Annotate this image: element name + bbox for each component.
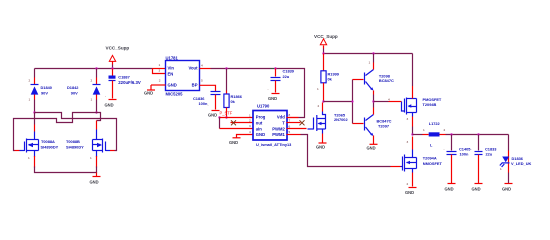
svg-text:V_LED_UK: V_LED_UK [511,161,532,166]
junction Vout rail at C1839 [274,67,276,69]
svg-text:2: 2 [444,128,446,132]
svg-text:1: 1 [159,63,161,67]
svg-text:3: 3 [249,124,251,128]
svg-text:GND: GND [90,180,99,185]
svg-text:GND: GND [316,144,325,149]
svg-text:1: 1 [423,128,425,132]
wire T2094A drain [407,137,413,150]
wire U1790 pin8 Vdd riser [287,113,299,118]
svg-text:BP: BP [192,82,198,87]
svg-text:-: - [471,147,472,151]
transistor T0088A (MOSFET SI4890DY) [20,132,59,158]
svg-text:1: 1 [317,87,319,91]
junction switch node [411,133,413,135]
svg-text:GND: GND [445,186,454,191]
svg-text:2: 2 [159,78,161,82]
capacitor C1887 (polarized 220uF/6.3V) [105,69,141,99]
svg-text:4: 4 [249,130,251,134]
svg-text:22u: 22u [283,74,290,79]
wire T2065 source to ground [322,129,324,143]
svg-text:2: 2 [407,182,409,186]
svg-text:ain: ain [256,126,262,131]
op-amp U1790 ATtiny13 box [253,104,292,147]
svg-text:220uF/6.3V: 220uF/6.3V [118,80,141,85]
svg-text:GND: GND [144,91,153,96]
junction Vout rail at R1866 [225,67,227,69]
svg-text:T2094A: T2094A [423,155,437,160]
svg-text:T2094B: T2094B [423,102,437,107]
ground T2094A [405,188,417,195]
svg-text:4: 4 [201,63,203,67]
svg-text:3: 3 [407,117,409,121]
svg-text:GND: GND [208,113,217,118]
wire jog right diode node down to T0088B drain [97,113,101,130]
junction totem-pole output [372,100,374,102]
svg-text:GND: GND [502,186,511,191]
svg-text:5: 5 [201,78,203,82]
svg-text:U_ismail_ATTiny13: U_ismail_ATTiny13 [256,142,292,147]
svg-text:2: 2 [249,118,251,122]
svg-text:P_STF: P_STF [220,111,233,116]
svg-text:1: 1 [369,61,371,65]
svg-text:2: 2 [318,104,320,108]
node VCC_IN00 (left power label) [106,46,130,51]
svg-text:VCC_Supp: VCC_Supp [314,34,338,39]
svg-text:-: - [444,147,445,151]
svg-text:VCC_Supp: VCC_Supp [106,46,130,51]
svg-text:5: 5 [289,130,291,134]
svg-text:NMOSFET: NMOSFET [423,161,443,166]
svg-text:BC847C: BC847C [379,78,394,83]
transistor T2097 (BC847C, bottom NPN) [365,102,392,145]
junction output rail at C1405 [450,133,452,135]
svg-text:L1722: L1722 [429,121,441,126]
svg-text:1: 1 [29,98,31,102]
svg-text:U1781: U1781 [166,56,179,61]
svg-text:C1887: C1887 [118,75,129,80]
node VCC_IN00 (right power label) [314,34,338,39]
junction rail at T2098 collector [372,52,374,54]
transistor T2094B (PMOSFET) [402,54,442,115]
wire T0088A source to bottom rail [28,156,35,168]
svg-text:90V: 90V [41,90,48,95]
svg-text:-: - [268,88,269,92]
svg-text:3: 3 [159,68,161,72]
ground D1836 [502,184,513,192]
junction P_STF corner [218,116,220,118]
capacitor C1833 22u [471,135,498,184]
svg-text:MIC5205: MIC5205 [166,91,184,96]
wire switch node to L1722 [413,128,429,135]
svg-text:-: - [208,104,209,108]
wire rail into regulator pins 1,3 [153,63,166,74]
svg-text:90V: 90V [71,90,78,95]
svg-text:4: 4 [388,97,390,101]
wire P_STF down to U1790 pin3 [220,118,253,129]
junction output rail at C1833 [477,133,479,135]
ground C1833 [472,184,483,192]
resistor R1866 [224,69,243,118]
wire regulator GND pin 2 [151,78,166,89]
wire U1790 pin7 T no-connect [287,118,301,122]
ground C1836 [208,111,220,118]
svg-text:1: 1 [90,156,92,160]
wire BP pin 5 to C1836 [200,78,216,91]
ground left MOSFET sources [90,173,101,185]
inductor L1722 [429,121,446,147]
svg-text:2N7002: 2N7002 [334,117,348,122]
junction R1866 bottom on pin1 net [225,116,227,118]
svg-text:GND: GND [268,96,277,101]
svg-text:GND: GND [405,190,414,195]
transistor T2065 (2N7002) [308,113,349,132]
junction on rail at right diode branch [95,67,97,69]
svg-text:D1840: D1840 [41,85,52,90]
transistor T2094A (NMOSFET) [401,150,443,172]
ground T2065 [316,143,327,149]
wire P1: left diode node to T0088B gate (crossover) [35,113,117,151]
svg-text:-: - [105,95,106,99]
wire P2: right diode node to T0088A gate (crossover) [14,113,97,151]
ground C1887 [105,100,117,108]
svg-text:1: 1 [28,156,30,160]
power symbol VCC (left) [109,55,115,68]
svg-text:GND: GND [105,103,114,108]
svg-text:U1790: U1790 [257,104,270,109]
svg-text:EN: EN [168,71,174,76]
svg-text:3: 3 [407,140,409,144]
wire T2094A source to ground [407,169,413,187]
svg-text:Vout: Vout [189,65,199,70]
power symbol VCC (right) [320,39,326,54]
wire totem output to T2094B gate [374,97,402,101]
wire main input rail y=68 [35,68,153,70]
capacitor C1836 100n [193,92,221,110]
svg-text:PWM2: PWM2 [272,126,285,131]
svg-text:7: 7 [289,118,291,122]
svg-text:out: out [256,121,263,126]
svg-text:22u: 22u [486,152,493,157]
svg-text:100n: 100n [460,152,469,157]
svg-text:T2097: T2097 [378,123,389,128]
wire base drive to T2098/T2097 bases [324,80,364,124]
diode D1842 [67,69,101,113]
svg-text:1: 1 [91,98,93,102]
junction node right diode / T0088B drain [95,111,97,113]
svg-text:2: 2 [29,79,31,83]
ground C1839 [268,94,280,101]
wire top right rail y=55 [324,53,413,55]
svg-text:T: T [282,121,285,126]
wire T2065 drain [318,103,326,119]
svg-text:GND: GND [168,82,177,87]
wire U1790 pin2 no-connect [231,118,253,122]
wire P_STF to U1790 pin1 [220,113,253,117]
junction R1999 / T2065 drain / base drive [322,100,324,102]
svg-text:1: 1 [500,167,502,171]
diode D1836 (LED V_LED_UK) [500,135,532,184]
capacitor C1839 22u [268,69,295,93]
wire U1790 pin6 PWM2 to T2065 gate [287,125,307,129]
svg-text:Prog: Prog [256,115,266,120]
ground C1405 [445,184,456,192]
junction node left diode / T0088A drain [33,111,35,113]
svg-text:6: 6 [289,125,291,129]
wire U1790 pin4 GND [237,130,253,138]
svg-text:2: 2 [91,79,93,83]
svg-text:SI4890DY: SI4890DY [66,144,84,149]
ground regulator pin2 [144,90,155,96]
ground T2097 emitter [367,144,378,150]
diode D1840 [29,69,52,113]
wire U1790 pin5 PWM1 to T2094A gate [287,130,401,167]
op-amp U1781 regulator MIC5205 box [166,56,200,97]
svg-text:SI4890DY: SI4890DY [41,144,59,149]
resistor R1999 [317,54,340,102]
svg-text:GND: GND [367,145,376,150]
node P_STF net label [220,111,233,116]
wire bottom source rail [35,167,97,173]
svg-text:PWM1: PWM1 [272,132,285,137]
junction rail at R1999/VCC [322,52,324,54]
svg-text:GND: GND [256,132,265,137]
no-connect X on pin2 [231,120,236,125]
svg-text:Vin: Vin [168,65,175,70]
svg-text:GND: GND [472,186,481,191]
wire output rail [446,134,509,136]
svg-text:Vdd: Vdd [277,115,285,120]
wire T2094B drain to switch node [407,113,413,135]
wire T0088B source to bottom rail [90,156,97,168]
svg-text:1: 1 [249,113,251,117]
ground U1790 pin4 [229,138,241,145]
junction on rail at VCC / C1887 [111,67,113,69]
capacitor C1405 100n [444,135,472,184]
wire Vout rail pin 4 [200,63,305,117]
wire left diode node down to T0088A drain [34,113,36,132]
svg-text:GND: GND [229,140,238,145]
transistor T0088B (MOSFET SI4890DY, mirrored) [66,130,110,158]
svg-text:D1842: D1842 [67,85,79,90]
transistor T2098 (BC847C, top NPN) [365,54,395,102]
svg-text:8: 8 [289,113,291,117]
no-connect X on pin7 [300,120,305,125]
